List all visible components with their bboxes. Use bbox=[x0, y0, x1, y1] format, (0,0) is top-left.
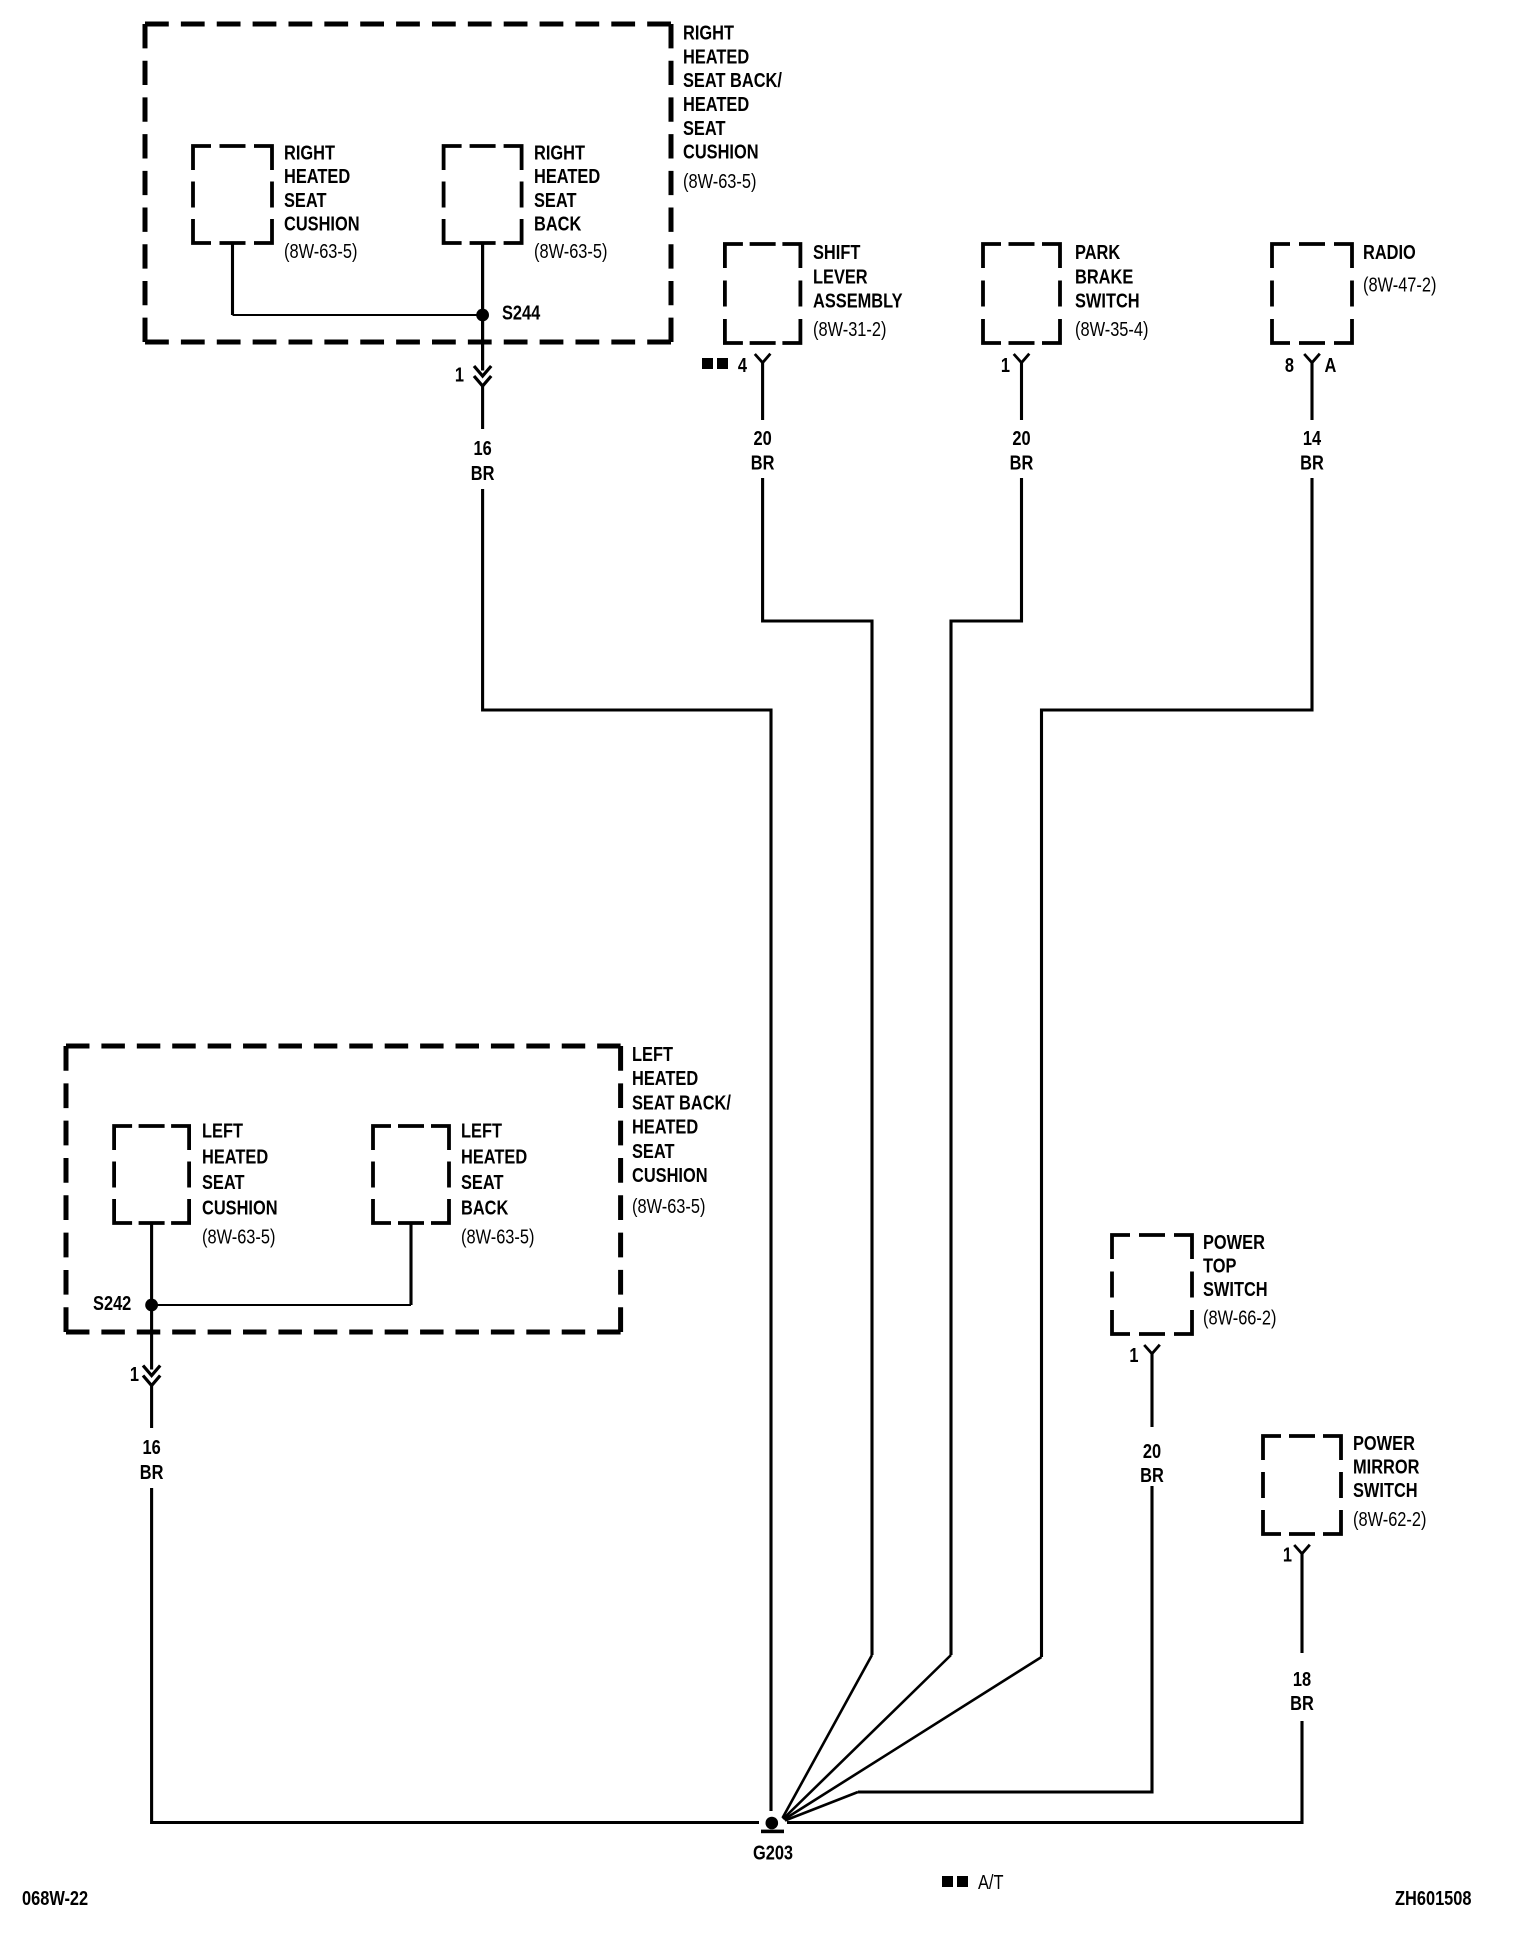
svg-text:CUSHION: CUSHION bbox=[632, 1163, 708, 1186]
svg-text:HEATED: HEATED bbox=[683, 45, 749, 68]
svg-text:SEAT: SEAT bbox=[284, 188, 327, 211]
svg-text:RADIO: RADIO bbox=[1363, 240, 1416, 263]
svg-text:ASSEMBLY: ASSEMBLY bbox=[813, 289, 903, 312]
svg-text:BR: BR bbox=[1300, 451, 1324, 474]
svg-text:BR: BR bbox=[1290, 1691, 1314, 1714]
svg-text:BACK: BACK bbox=[461, 1196, 509, 1219]
svg-text:BACK: BACK bbox=[534, 212, 582, 235]
svg-text:20: 20 bbox=[753, 426, 771, 449]
svg-text:BR: BR bbox=[751, 451, 775, 474]
svg-text:RIGHT: RIGHT bbox=[683, 21, 735, 44]
svg-text:HEATED: HEATED bbox=[632, 1066, 698, 1089]
svg-text:18: 18 bbox=[1293, 1667, 1311, 1690]
svg-text:(8W-63-5): (8W-63-5) bbox=[202, 1225, 275, 1248]
svg-text:PARK: PARK bbox=[1075, 240, 1121, 263]
svg-text:POWER: POWER bbox=[1203, 1230, 1265, 1253]
svg-text:CUSHION: CUSHION bbox=[284, 212, 360, 235]
svg-text:(8W-63-5): (8W-63-5) bbox=[534, 239, 607, 262]
svg-text:1: 1 bbox=[1283, 1543, 1292, 1566]
svg-text:S244: S244 bbox=[502, 301, 541, 324]
svg-text:BR: BR bbox=[1010, 451, 1034, 474]
svg-text:BR: BR bbox=[471, 461, 495, 484]
svg-text:LEVER: LEVER bbox=[813, 265, 868, 288]
svg-text:(8W-63-5): (8W-63-5) bbox=[683, 169, 756, 192]
svg-text:HEATED: HEATED bbox=[534, 164, 600, 187]
svg-text:BRAKE: BRAKE bbox=[1075, 265, 1133, 288]
svg-text:SEAT: SEAT bbox=[534, 188, 577, 211]
svg-text:14: 14 bbox=[1303, 426, 1322, 449]
svg-text:SHIFT: SHIFT bbox=[813, 240, 861, 263]
svg-text:LEFT: LEFT bbox=[461, 1119, 503, 1142]
svg-text:SEAT BACK/: SEAT BACK/ bbox=[683, 68, 782, 91]
svg-text:(8W-31-2): (8W-31-2) bbox=[813, 317, 886, 340]
svg-text:S242: S242 bbox=[93, 1291, 131, 1314]
svg-text:SWITCH: SWITCH bbox=[1353, 1478, 1418, 1501]
svg-text:CUSHION: CUSHION bbox=[683, 140, 759, 163]
svg-text:SEAT BACK/: SEAT BACK/ bbox=[632, 1091, 731, 1114]
svg-text:MIRROR: MIRROR bbox=[1353, 1455, 1420, 1478]
svg-text:20: 20 bbox=[1012, 426, 1030, 449]
svg-text:(8W-63-5): (8W-63-5) bbox=[284, 239, 357, 262]
svg-text:(8W-63-5): (8W-63-5) bbox=[461, 1225, 534, 1248]
svg-text:BR: BR bbox=[1140, 1463, 1164, 1486]
svg-text:4: 4 bbox=[738, 353, 748, 376]
svg-text:CUSHION: CUSHION bbox=[202, 1196, 278, 1219]
svg-text:HEATED: HEATED bbox=[284, 164, 350, 187]
svg-text:16: 16 bbox=[473, 436, 491, 459]
svg-text:HEATED: HEATED bbox=[202, 1145, 268, 1168]
svg-text:1: 1 bbox=[1129, 1343, 1138, 1366]
svg-text:20: 20 bbox=[1143, 1439, 1161, 1462]
svg-text:G203: G203 bbox=[753, 1841, 793, 1864]
svg-text:SWITCH: SWITCH bbox=[1203, 1277, 1268, 1300]
svg-text:POWER: POWER bbox=[1353, 1431, 1415, 1454]
svg-text:SEAT: SEAT bbox=[461, 1170, 504, 1193]
svg-text:LEFT: LEFT bbox=[632, 1042, 674, 1065]
svg-text:(8W-63-5): (8W-63-5) bbox=[632, 1194, 705, 1217]
svg-text:HEATED: HEATED bbox=[683, 92, 749, 115]
svg-text:1: 1 bbox=[130, 1362, 139, 1385]
svg-text:RIGHT: RIGHT bbox=[284, 141, 336, 164]
svg-text:TOP: TOP bbox=[1203, 1254, 1236, 1277]
svg-text:SEAT: SEAT bbox=[202, 1170, 245, 1193]
svg-text:(8W-35-4): (8W-35-4) bbox=[1075, 317, 1148, 340]
svg-text:16: 16 bbox=[142, 1435, 160, 1458]
svg-text:068W-22: 068W-22 bbox=[22, 1886, 88, 1909]
svg-text:1: 1 bbox=[455, 363, 464, 386]
svg-text:A/T: A/T bbox=[978, 1870, 1003, 1893]
svg-text:8: 8 bbox=[1285, 353, 1294, 376]
svg-text:SEAT: SEAT bbox=[683, 116, 726, 139]
svg-text:ZH601508: ZH601508 bbox=[1395, 1886, 1472, 1909]
svg-text:1: 1 bbox=[1001, 353, 1010, 376]
svg-text:HEATED: HEATED bbox=[461, 1145, 527, 1168]
svg-text:SWITCH: SWITCH bbox=[1075, 289, 1140, 312]
svg-text:A: A bbox=[1325, 353, 1337, 376]
svg-text:(8W-66-2): (8W-66-2) bbox=[1203, 1306, 1276, 1329]
svg-text:HEATED: HEATED bbox=[632, 1115, 698, 1138]
svg-text:RIGHT: RIGHT bbox=[534, 141, 586, 164]
svg-text:BR: BR bbox=[140, 1460, 164, 1483]
svg-text:(8W-62-2): (8W-62-2) bbox=[1353, 1507, 1426, 1530]
svg-text:LEFT: LEFT bbox=[202, 1119, 244, 1142]
svg-text:SEAT: SEAT bbox=[632, 1139, 675, 1162]
svg-text:(8W-47-2): (8W-47-2) bbox=[1363, 273, 1436, 296]
